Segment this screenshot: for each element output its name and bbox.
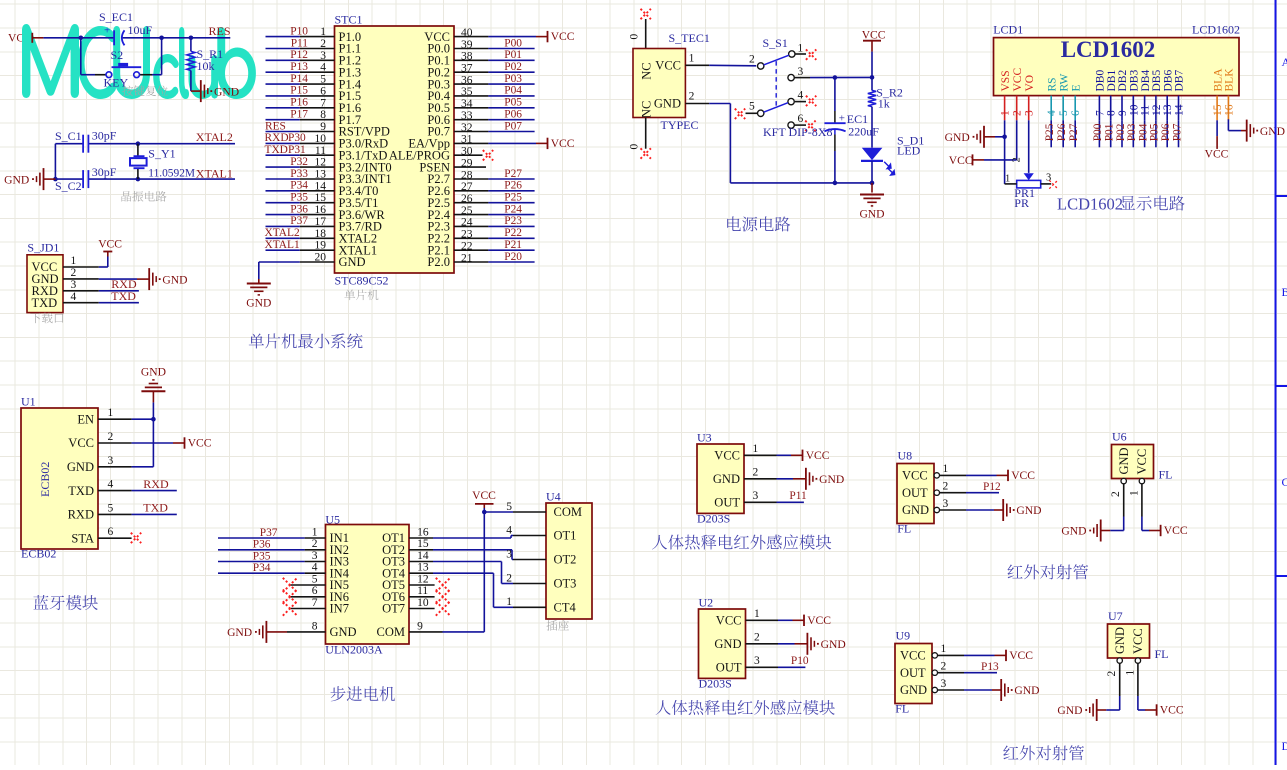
svg-text:GND: GND xyxy=(859,208,884,221)
svg-text:RXD: RXD xyxy=(143,477,169,491)
svg-text:TXD: TXD xyxy=(265,144,288,156)
svg-text:NC: NC xyxy=(640,62,654,79)
svg-text:2: 2 xyxy=(749,54,755,66)
svg-text:2: 2 xyxy=(753,467,759,479)
svg-text:DB0: DB0 xyxy=(1095,70,1107,92)
svg-text:IN7: IN7 xyxy=(330,602,349,616)
svg-text:1k: 1k xyxy=(878,97,890,111)
svg-text:7: 7 xyxy=(312,597,318,609)
svg-text:S_C1: S_C1 xyxy=(55,129,82,143)
svg-text:220uF: 220uF xyxy=(848,124,879,138)
svg-text:1: 1 xyxy=(753,443,759,455)
svg-text:P35: P35 xyxy=(290,192,308,204)
svg-text:16: 16 xyxy=(417,526,429,538)
svg-text:30pF: 30pF xyxy=(92,129,117,143)
svg-text:DB3: DB3 xyxy=(1129,70,1141,92)
svg-text:P00: P00 xyxy=(504,37,522,49)
svg-text:2: 2 xyxy=(506,572,512,584)
svg-text:TXD: TXD xyxy=(32,296,58,310)
svg-text:14: 14 xyxy=(1174,104,1186,116)
svg-text:P35: P35 xyxy=(253,550,271,562)
svg-text:BLK: BLK xyxy=(1224,68,1236,92)
svg-text:COM: COM xyxy=(554,505,582,519)
svg-text:P05: P05 xyxy=(1149,123,1161,141)
svg-text:1: 1 xyxy=(1000,110,1012,116)
svg-text:P31: P31 xyxy=(288,144,306,156)
svg-text:LCD1: LCD1 xyxy=(993,22,1023,36)
svg-text:3: 3 xyxy=(506,548,512,560)
svg-text:2: 2 xyxy=(1011,157,1022,162)
svg-text:RES: RES xyxy=(209,24,231,38)
svg-text:P00: P00 xyxy=(1092,123,1104,141)
svg-text:OUT: OUT xyxy=(714,496,740,510)
svg-text:P26: P26 xyxy=(504,180,522,192)
svg-text:P37: P37 xyxy=(290,215,308,227)
svg-text:TXD: TXD xyxy=(111,289,136,303)
svg-text:RS: RS xyxy=(1046,77,1058,91)
svg-text:S_S1: S_S1 xyxy=(763,36,788,50)
svg-text:TXD: TXD xyxy=(68,484,94,498)
svg-text:P12: P12 xyxy=(290,49,308,61)
svg-text:9: 9 xyxy=(1117,110,1129,116)
svg-text:P2.0: P2.0 xyxy=(427,255,450,269)
svg-text:GND: GND xyxy=(1014,684,1039,697)
svg-text:1: 1 xyxy=(798,43,804,55)
svg-text:VCC: VCC xyxy=(714,449,740,463)
svg-text:13: 13 xyxy=(417,562,429,574)
svg-text:+: + xyxy=(104,25,110,37)
svg-text:11: 11 xyxy=(1140,105,1152,116)
svg-text:5: 5 xyxy=(1058,110,1070,116)
svg-text:P03: P03 xyxy=(1126,123,1138,141)
svg-text:VCC: VCC xyxy=(1164,524,1188,537)
svg-text:KEY: KEY xyxy=(104,76,129,90)
svg-text:OT7: OT7 xyxy=(382,602,405,616)
svg-text:VCC: VCC xyxy=(1009,649,1033,662)
svg-text:TYPEC: TYPEC xyxy=(661,118,699,132)
svg-text:P27: P27 xyxy=(1068,123,1080,141)
svg-text:VCC: VCC xyxy=(862,29,886,42)
svg-text:8: 8 xyxy=(312,620,318,632)
svg-text:U9: U9 xyxy=(896,629,911,643)
svg-text:P34: P34 xyxy=(253,562,271,574)
svg-text:GND: GND xyxy=(1113,627,1127,654)
svg-text:GND: GND xyxy=(162,273,187,286)
svg-text:OUT: OUT xyxy=(902,486,928,500)
svg-text:S_Y1: S_Y1 xyxy=(148,147,175,161)
svg-text:1: 1 xyxy=(1124,670,1136,676)
svg-text:EN: EN xyxy=(77,412,94,426)
svg-text:P14: P14 xyxy=(290,73,308,85)
svg-text:FL: FL xyxy=(897,522,911,536)
svg-text:P06: P06 xyxy=(1160,123,1172,141)
svg-text:3: 3 xyxy=(1024,110,1036,116)
svg-text:U7: U7 xyxy=(1108,609,1123,623)
svg-text:4: 4 xyxy=(312,562,318,574)
svg-text:VCC: VCC xyxy=(1160,704,1184,717)
svg-text:VCC: VCC xyxy=(98,238,122,251)
svg-text:C: C xyxy=(1282,475,1287,489)
svg-text:P01: P01 xyxy=(1104,123,1116,141)
svg-text:P33: P33 xyxy=(290,168,308,180)
svg-text:2: 2 xyxy=(71,267,77,279)
svg-text:U6: U6 xyxy=(1112,430,1127,444)
svg-text:VCC: VCC xyxy=(1131,628,1145,654)
svg-text:1: 1 xyxy=(943,463,949,475)
svg-text:3: 3 xyxy=(753,490,759,502)
svg-text:P16: P16 xyxy=(290,97,308,109)
svg-text:GND: GND xyxy=(819,473,844,486)
svg-text:P13: P13 xyxy=(981,661,999,673)
svg-text:P02: P02 xyxy=(504,61,522,73)
svg-text:P12: P12 xyxy=(983,481,1001,493)
svg-text:P11: P11 xyxy=(291,37,309,49)
svg-text:GND: GND xyxy=(246,297,271,310)
svg-text:OT1: OT1 xyxy=(554,529,577,543)
svg-text:OUT: OUT xyxy=(900,666,926,680)
svg-text:RXD: RXD xyxy=(68,508,94,522)
svg-text:P21: P21 xyxy=(504,239,522,251)
svg-text:FL: FL xyxy=(895,702,909,716)
svg-text:BLA: BLA xyxy=(1212,68,1224,92)
svg-text:3: 3 xyxy=(798,66,804,78)
svg-text:P30: P30 xyxy=(288,132,306,144)
svg-text:B: B xyxy=(1282,285,1287,299)
svg-text:GND: GND xyxy=(900,683,927,697)
svg-text:5: 5 xyxy=(108,502,114,514)
svg-text:9: 9 xyxy=(417,620,423,632)
svg-text:3: 3 xyxy=(941,678,947,690)
svg-text:GND: GND xyxy=(902,503,929,517)
svg-text:4: 4 xyxy=(798,90,804,102)
svg-text:P34: P34 xyxy=(290,180,308,192)
svg-text:P25: P25 xyxy=(504,192,522,204)
svg-text:VCC: VCC xyxy=(551,30,575,43)
svg-text:VSS: VSS xyxy=(1000,70,1012,91)
svg-text:S2: S2 xyxy=(111,48,124,62)
svg-text:P15: P15 xyxy=(290,85,308,97)
svg-text:P25: P25 xyxy=(1044,123,1056,141)
svg-text:A: A xyxy=(1282,55,1287,69)
svg-text:1: 1 xyxy=(506,596,512,608)
svg-text:RXD: RXD xyxy=(265,132,289,144)
svg-text:KFT DIP-8X8: KFT DIP-8X8 xyxy=(763,125,832,139)
svg-text:LCD1602: LCD1602 xyxy=(1192,22,1240,36)
svg-text:1: 1 xyxy=(71,255,77,267)
svg-text:13: 13 xyxy=(1162,104,1174,116)
svg-text:11.0592M: 11.0592M xyxy=(148,168,195,180)
svg-text:GND: GND xyxy=(141,365,166,378)
svg-text:FL: FL xyxy=(1155,647,1169,661)
svg-text:7: 7 xyxy=(1094,110,1106,116)
svg-text:D203S: D203S xyxy=(699,677,732,691)
svg-text:STA: STA xyxy=(71,531,94,545)
svg-text:1: 1 xyxy=(941,643,947,655)
svg-text:1: 1 xyxy=(108,407,114,419)
svg-text:P13: P13 xyxy=(290,61,308,73)
svg-text:P04: P04 xyxy=(504,85,522,97)
svg-text:GND: GND xyxy=(214,85,239,98)
svg-text:VCC: VCC xyxy=(1135,449,1149,475)
svg-text:STC89C52: STC89C52 xyxy=(335,273,389,287)
svg-text:GND: GND xyxy=(330,625,357,639)
svg-text:XTAL2: XTAL2 xyxy=(196,130,233,144)
svg-text:U8: U8 xyxy=(898,449,913,463)
svg-text:3: 3 xyxy=(108,455,114,467)
svg-text:P22: P22 xyxy=(504,227,522,239)
svg-text:2: 2 xyxy=(1106,671,1118,677)
svg-text:1: 1 xyxy=(754,608,760,620)
svg-text:GND: GND xyxy=(4,173,29,186)
svg-text:D: D xyxy=(1282,739,1287,753)
svg-text:P10: P10 xyxy=(791,655,809,667)
svg-text:U1: U1 xyxy=(21,395,36,409)
svg-text:1: 1 xyxy=(689,52,695,64)
svg-text:6: 6 xyxy=(108,526,114,538)
svg-text:P04: P04 xyxy=(1137,123,1149,141)
svg-text:VO: VO xyxy=(1024,75,1036,92)
svg-text:XTAL1: XTAL1 xyxy=(196,167,233,181)
svg-text:FL: FL xyxy=(1159,468,1173,482)
svg-text:3: 3 xyxy=(71,279,77,291)
svg-text:11: 11 xyxy=(417,585,428,597)
svg-text:2: 2 xyxy=(943,481,949,493)
svg-text:S_EC1: S_EC1 xyxy=(99,10,133,24)
svg-text:VCC: VCC xyxy=(900,649,926,663)
svg-text:P27: P27 xyxy=(504,168,522,180)
svg-text:VCC: VCC xyxy=(1205,147,1229,160)
svg-text:DB6: DB6 xyxy=(1162,70,1174,92)
svg-text:GND: GND xyxy=(1061,525,1086,538)
svg-text:5: 5 xyxy=(749,101,755,113)
svg-text:12: 12 xyxy=(1151,104,1163,116)
svg-text:P11: P11 xyxy=(789,490,807,502)
svg-text:P36: P36 xyxy=(290,203,308,215)
svg-text:30pF: 30pF xyxy=(92,165,117,179)
svg-text:2: 2 xyxy=(108,431,114,443)
svg-text:16: 16 xyxy=(1223,104,1235,116)
svg-text:+: + xyxy=(839,112,845,124)
svg-text:10: 10 xyxy=(417,597,429,609)
svg-text:LCD1602: LCD1602 xyxy=(1057,194,1123,213)
svg-text:OT3: OT3 xyxy=(554,577,577,591)
svg-text:P07: P07 xyxy=(504,120,522,132)
svg-text:2: 2 xyxy=(689,91,695,103)
svg-text:P32: P32 xyxy=(290,156,308,168)
svg-text:S_TEC1: S_TEC1 xyxy=(669,31,710,45)
svg-text:10k: 10k xyxy=(197,59,215,73)
svg-text:10: 10 xyxy=(1128,104,1140,116)
svg-text:VCC: VCC xyxy=(716,614,742,628)
svg-text:OT2: OT2 xyxy=(554,553,577,567)
svg-text:VCC: VCC xyxy=(655,59,681,73)
svg-text:2: 2 xyxy=(1110,491,1122,497)
svg-text:CT4: CT4 xyxy=(554,601,577,615)
svg-text:ECB02: ECB02 xyxy=(21,547,56,561)
svg-text:P07: P07 xyxy=(1171,123,1183,141)
svg-text:P03: P03 xyxy=(504,73,522,85)
svg-text:E: E xyxy=(1070,84,1082,91)
svg-text:3: 3 xyxy=(1046,173,1051,184)
svg-text:14: 14 xyxy=(417,550,429,562)
svg-text:2: 2 xyxy=(754,632,760,644)
svg-text:D203S: D203S xyxy=(697,512,730,526)
svg-text:3: 3 xyxy=(312,550,318,562)
svg-text:LED: LED xyxy=(897,143,921,157)
svg-text:U4: U4 xyxy=(546,490,561,504)
svg-text:15: 15 xyxy=(1212,104,1224,116)
svg-text:1: 1 xyxy=(1128,490,1140,496)
svg-text:0: 0 xyxy=(629,144,641,150)
svg-text:6: 6 xyxy=(312,585,318,597)
svg-text:P02: P02 xyxy=(1115,123,1127,141)
svg-text:GND: GND xyxy=(1057,704,1082,717)
svg-text:8: 8 xyxy=(1106,110,1118,116)
svg-text:STC1: STC1 xyxy=(335,12,363,26)
svg-text:RW: RW xyxy=(1058,73,1070,91)
svg-text:6: 6 xyxy=(798,113,804,125)
svg-text:4: 4 xyxy=(506,524,512,536)
svg-text:P23: P23 xyxy=(504,215,522,227)
svg-text:P01: P01 xyxy=(504,49,522,61)
svg-text:2: 2 xyxy=(941,661,947,673)
svg-text:VCC: VCC xyxy=(949,154,973,167)
svg-text:GND: GND xyxy=(945,131,970,144)
svg-text:GND: GND xyxy=(1117,447,1131,474)
svg-text:3: 3 xyxy=(943,498,949,510)
svg-text:6: 6 xyxy=(1070,110,1082,116)
svg-text:RES: RES xyxy=(265,120,286,132)
svg-text:4: 4 xyxy=(71,291,77,303)
svg-text:P10: P10 xyxy=(290,25,308,37)
svg-text:XTAL2: XTAL2 xyxy=(265,227,300,239)
svg-text:P37: P37 xyxy=(260,527,278,539)
svg-text:GND: GND xyxy=(1016,504,1041,517)
svg-text:OUT: OUT xyxy=(716,661,742,675)
svg-text:0: 0 xyxy=(629,34,641,40)
svg-text:P26: P26 xyxy=(1056,123,1068,141)
svg-text:S_C2: S_C2 xyxy=(55,179,82,193)
svg-text:ULN2003A: ULN2003A xyxy=(325,643,383,657)
svg-text:VCC: VCC xyxy=(1011,469,1035,482)
svg-text:ECB02: ECB02 xyxy=(38,462,52,497)
svg-text:P36: P36 xyxy=(253,539,271,551)
svg-text:10uF: 10uF xyxy=(128,23,153,37)
svg-text:GND: GND xyxy=(654,97,681,111)
svg-text:PR: PR xyxy=(1014,196,1029,210)
svg-text:P17: P17 xyxy=(290,109,308,121)
svg-text:U2: U2 xyxy=(699,596,714,610)
svg-text:GND: GND xyxy=(227,626,252,639)
svg-text:P20: P20 xyxy=(504,251,522,263)
svg-text:COM: COM xyxy=(377,625,405,639)
svg-text:S_JD1: S_JD1 xyxy=(27,240,59,254)
svg-text:P24: P24 xyxy=(504,203,522,215)
svg-text:DB5: DB5 xyxy=(1151,70,1163,92)
svg-text:5: 5 xyxy=(312,573,318,585)
svg-text:GND: GND xyxy=(67,460,94,474)
svg-text:VCC: VCC xyxy=(188,437,212,450)
svg-text:GND: GND xyxy=(714,637,741,651)
svg-text:XTAL1: XTAL1 xyxy=(265,239,300,251)
svg-text:DB1: DB1 xyxy=(1106,70,1118,92)
svg-text:NC: NC xyxy=(640,101,654,118)
svg-text:VCC: VCC xyxy=(902,469,928,483)
svg-text:15: 15 xyxy=(417,538,429,550)
svg-text:TXD: TXD xyxy=(143,501,168,515)
svg-text:VCC: VCC xyxy=(472,489,496,502)
svg-text:VCC: VCC xyxy=(1012,68,1024,92)
svg-text:VCC: VCC xyxy=(807,614,831,627)
svg-text:GND: GND xyxy=(1260,125,1285,138)
svg-text:5: 5 xyxy=(506,501,512,513)
svg-text:GND: GND xyxy=(713,472,740,486)
svg-text:4: 4 xyxy=(1046,110,1058,116)
svg-text:VCC: VCC xyxy=(68,436,94,450)
svg-text:P05: P05 xyxy=(504,97,522,109)
svg-text:1: 1 xyxy=(312,526,318,538)
svg-text:DB2: DB2 xyxy=(1117,70,1129,92)
svg-text:12: 12 xyxy=(417,573,429,585)
svg-text:DB4: DB4 xyxy=(1140,70,1152,92)
svg-text:2: 2 xyxy=(1012,110,1024,116)
svg-text:U3: U3 xyxy=(697,431,712,445)
svg-text:VCC: VCC xyxy=(551,137,575,150)
svg-text:1: 1 xyxy=(1005,174,1010,185)
svg-text:LCD1602: LCD1602 xyxy=(1061,37,1156,62)
svg-text:2: 2 xyxy=(312,538,318,550)
svg-text:VCC: VCC xyxy=(806,449,830,462)
svg-text:3: 3 xyxy=(754,655,760,667)
svg-text:DB7: DB7 xyxy=(1174,70,1186,92)
svg-text:GND: GND xyxy=(339,255,366,269)
svg-text:4: 4 xyxy=(108,479,114,491)
svg-text:GND: GND xyxy=(821,638,846,651)
svg-text:P06: P06 xyxy=(504,109,522,121)
